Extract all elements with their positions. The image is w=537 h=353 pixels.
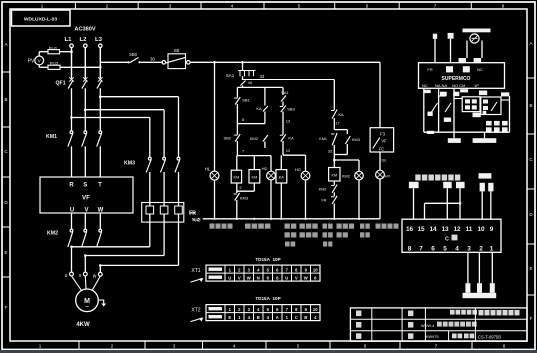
svg-text:6: 6 [366, 4, 369, 9]
wire PV loop [38, 52, 40, 56]
lamp HR [333, 157, 335, 159]
thermal relay FR [142, 203, 200, 223]
svg-text:17: 17 [335, 121, 340, 126]
connector plug 3 [456, 182, 465, 188]
terminal square above controller [433, 34, 437, 39]
svg-text:2: 2 [479, 246, 483, 253]
contact KM3 interlock NC [234, 193, 237, 195]
svg-text:8: 8 [503, 344, 506, 349]
svg-text:FR: FR [427, 67, 432, 72]
svg-text:1: 1 [490, 246, 494, 253]
svg-text:W: W [98, 208, 104, 214]
svg-text:B: B [304, 315, 307, 320]
svg-text:TD15A 10P: TD15A 10P [255, 296, 280, 301]
svg-text:U: U [285, 276, 288, 281]
svg-text:R: R [69, 183, 74, 189]
svg-text:AC380V: AC380V [74, 27, 95, 33]
svg-text:TD15A 10P: TD15A 10P [255, 257, 280, 262]
svg-text:1P: 1P [474, 83, 479, 88]
svg-text:10: 10 [313, 307, 318, 312]
svg-text:2: 2 [111, 344, 114, 349]
svg-text:HG: HG [295, 167, 301, 172]
cluster pad 2 [453, 92, 459, 96]
cluster pad under box [424, 90, 431, 93]
svg-text:5: 5 [297, 344, 300, 349]
wire tap L2 to KM3 pole2 [84, 108, 87, 111]
contact KA seal [264, 87, 266, 105]
svg-text:B: B [257, 315, 260, 320]
svg-text:KM1: KM1 [46, 134, 57, 140]
svg-text:NC: NC [477, 67, 483, 72]
cluster link wires [454, 98, 462, 100]
svg-text:N Ø: N Ø [193, 218, 201, 223]
svg-text:1: 1 [39, 344, 42, 349]
wire KM3 column [333, 80, 335, 111]
wire control rail bottom [203, 218, 380, 220]
svg-text:F: F [530, 316, 533, 321]
pushbutton SB2 [236, 124, 238, 135]
wire VF fault branch [379, 62, 381, 127]
svg-text:HD: HD [262, 166, 268, 171]
function label gongpin/bianpin/qiehuan [285, 224, 290, 229]
contact below SA1 [242, 76, 244, 80]
breaker QF1 [56, 77, 103, 131]
right zone dividers and letters [527, 41, 535, 321]
svg-text:10: 10 [313, 268, 318, 273]
alarm bell HA [463, 29, 491, 33]
svg-text:FU1: FU1 [49, 46, 58, 51]
wire ladder-L left vertical [236, 87, 238, 97]
svg-text:XT1: XT1 [191, 268, 200, 274]
svg-text:W: W [247, 276, 251, 281]
wire C3 down [467, 252, 469, 283]
cluster pad 8 [483, 111, 487, 115]
svg-text:KA: KA [256, 106, 262, 111]
svg-text:KM3: KM3 [352, 138, 360, 142]
svg-text:VF: VF [381, 139, 387, 144]
connector plug 1 [409, 182, 419, 188]
title block row3 labels [356, 333, 361, 339]
contact KM1 interlock NC [331, 133, 334, 135]
wire L2 vertical [84, 48, 86, 79]
title block [350, 308, 527, 341]
contact FR NC [333, 192, 335, 196]
wire lamp HR branch [333, 159, 336, 162]
wire Hx3 [283, 154, 306, 156]
contactor KM2 [47, 229, 102, 247]
cluster pad 4 [444, 118, 451, 122]
connector bar bottom [463, 293, 497, 298]
coil KM1 [236, 156, 238, 171]
plug pins bottom [465, 283, 470, 293]
switch SB in box [162, 61, 166, 65]
svg-text:9: 9 [490, 226, 494, 233]
wire motor leads [72, 276, 101, 291]
svg-text:~: ~ [85, 304, 89, 311]
controller unit SUPERMCO [419, 63, 505, 89]
svg-text:SA1: SA1 [226, 73, 235, 78]
wire FR pole3 to motor [178, 222, 180, 265]
svg-text:KM3: KM3 [124, 161, 135, 167]
lamp HR line-run indicator [334, 158, 359, 160]
svg-text:SB: SB [174, 48, 180, 53]
relay box B [481, 97, 501, 115]
relay contact K1 [432, 103, 438, 112]
svg-text:PV: PV [28, 59, 35, 65]
svg-text:KM2: KM2 [250, 136, 259, 141]
svg-text:14: 14 [429, 226, 437, 233]
svg-text:FC: FC [379, 147, 385, 152]
svg-text:KM2: KM2 [47, 231, 58, 237]
title block row1 labels [356, 311, 361, 317]
svg-text:u: u [65, 273, 68, 279]
wire VF outputs [71, 213, 73, 230]
wire H1 selector row [243, 79, 335, 81]
svg-text:KA: KA [338, 112, 344, 117]
svg-text:8: 8 [502, 4, 505, 9]
wire plug1 to C16 [413, 188, 415, 219]
terminal grid [486, 121, 508, 132]
svg-text:S: S [83, 183, 87, 189]
svg-text:E: E [529, 266, 532, 271]
svg-text:A: A [276, 315, 279, 320]
function label guzhang zhishi [376, 224, 381, 229]
title block project name line1 [450, 310, 455, 315]
lamp HR [355, 171, 364, 180]
svg-text:KM1: KM1 [319, 137, 327, 141]
wire L3 vertical [99, 48, 101, 79]
cluster pad 6 [501, 92, 509, 96]
svg-text:10: 10 [477, 226, 485, 233]
svg-text:4: 4 [455, 246, 459, 253]
svg-text:SUPERMCO: SUPERMCO [442, 76, 471, 82]
svg-text:L3: L3 [95, 37, 103, 43]
motor M 4KW [76, 289, 99, 312]
svg-text:15: 15 [417, 226, 425, 233]
wire loop bottom [237, 123, 265, 125]
relay box A [462, 97, 480, 112]
contactor KM3 (bypass) [124, 157, 180, 202]
svg-text:12: 12 [286, 148, 291, 153]
svg-text:B: B [4, 97, 7, 102]
svg-text:B: B [529, 103, 532, 108]
bottom zone dividers and numbers [39, 341, 506, 350]
svg-text:6: 6 [364, 344, 367, 349]
svg-text:8: 8 [408, 246, 412, 253]
svg-text:40: 40 [248, 80, 253, 85]
cluster pad 3 [428, 112, 433, 116]
svg-text:W: W [304, 276, 308, 281]
wire to controller [434, 39, 436, 63]
contact KM3 seal [345, 136, 350, 144]
svg-text:KM2: KM2 [319, 188, 327, 192]
terminal pads on controller top [459, 58, 467, 63]
svg-text:1: 1 [41, 4, 44, 9]
cluster pad under box 2 [460, 89, 468, 92]
wire plug3 to C12 with tee [459, 188, 461, 219]
terminal board C [402, 219, 501, 252]
svg-text:WDW-4: WDW-4 [421, 324, 434, 328]
coil KA [280, 155, 282, 169]
svg-text:7: 7 [434, 4, 437, 9]
svg-text:3: 3 [169, 4, 172, 9]
top zone dividers and numbers [41, 2, 505, 9]
left zone dividers and letters [2, 42, 10, 310]
svg-text:NA NA: NA NA [435, 83, 447, 88]
svg-text:5: 5 [298, 4, 301, 9]
svg-text:V: V [295, 276, 298, 281]
svg-text:KM: KM [252, 175, 258, 179]
wire plug2 to C13 [446, 188, 448, 219]
svg-text:XT2: XT2 [191, 308, 200, 314]
svg-text:SA1: SA1 [281, 90, 289, 95]
svg-text:V: V [238, 276, 241, 281]
svg-text:T: T [98, 183, 102, 189]
document number box [12, 10, 71, 26]
terminal strip XT1 [191, 257, 321, 282]
contact KM2 below KM3 coil NC [333, 181, 335, 185]
svg-text:7: 7 [419, 246, 423, 253]
wire H2 ladder top [242, 86, 244, 88]
svg-text:QF1: QF1 [56, 81, 66, 87]
inverter VF [40, 177, 133, 213]
svg-text:VF: VF [82, 195, 90, 202]
svg-text:KM2: KM2 [342, 175, 350, 179]
cluster pad 5 [479, 91, 487, 96]
wire ladder-R vertical [282, 87, 284, 95]
svg-text:SB1: SB1 [242, 98, 250, 103]
contactor KM1 [46, 131, 102, 177]
coil KM2 [253, 156, 255, 170]
cluster stub 2 [484, 132, 486, 138]
ground symbol [98, 300, 103, 304]
svg-text:13: 13 [441, 226, 449, 233]
wire tap L3 to KM3 pole3 [99, 95, 102, 98]
svg-text:FR: FR [321, 199, 326, 203]
svg-text:6: 6 [431, 246, 435, 253]
wire FR pole1 to motor [149, 222, 151, 247]
svg-text:16: 16 [406, 226, 414, 233]
svg-text:3: 3 [173, 344, 176, 349]
title block row2 labels [356, 322, 361, 328]
function label gongpin yunxing [337, 224, 342, 229]
svg-text:V: V [84, 208, 88, 214]
svg-text:L2: L2 [79, 37, 87, 43]
wire pin1 to C10 [481, 191, 483, 219]
wire C1 down [491, 252, 493, 283]
function label bianpin yunxing [245, 224, 251, 229]
connector bar top right [479, 173, 492, 178]
wire KM2 to motor terminals [71, 247, 73, 272]
function label gongpin [323, 224, 328, 229]
wire control rail top [100, 61, 128, 63]
svg-text:KA: KA [279, 175, 285, 179]
svg-text:E: E [4, 250, 7, 255]
bottom gray strip [0, 350, 537, 353]
wire KM1 KM2 coil bottoms merge [236, 183, 238, 193]
title block drawing name [479, 310, 484, 315]
relay cluster wiring [424, 88, 510, 132]
inverter fault contact box F3 VF FC [370, 128, 394, 152]
function label qidong [360, 224, 364, 229]
svg-text:KM: KM [331, 174, 337, 178]
wire C2 down [478, 252, 480, 283]
wire Hx2 coil feed [237, 155, 271, 157]
cluster pad 1 [440, 92, 447, 96]
svg-text:13: 13 [286, 119, 291, 124]
cluster pad on bottom line [427, 131, 434, 134]
svg-text:5: 5 [443, 246, 447, 253]
svg-text:4: 4 [233, 344, 236, 349]
svg-text:32: 32 [328, 149, 333, 154]
selector switch SA1 [226, 71, 265, 80]
contact SB3 [282, 102, 284, 107]
function label bianpin qidong [300, 224, 305, 229]
svg-text:F3: F3 [380, 131, 386, 136]
svg-text:C: C [295, 315, 298, 320]
svg-text:C: C [445, 237, 449, 243]
svg-text:NC: NC [422, 83, 428, 88]
function label dianyuan zhishi [210, 224, 215, 229]
connector bar 1 [448, 138, 461, 143]
wire FR pole2 to motor [163, 222, 165, 255]
svg-text:L1: L1 [64, 37, 72, 43]
svg-text:GL: GL [381, 158, 387, 163]
label high/low signal output [415, 175, 420, 181]
svg-text:N: N [257, 276, 260, 281]
lamp HY fault indicator [379, 152, 381, 170]
plug pin 1 [480, 183, 485, 192]
wire to controller 2 [450, 39, 452, 63]
svg-text:7: 7 [435, 344, 438, 349]
svg-text:E: E [228, 315, 231, 320]
junction dots bottom rail [213, 218, 360, 220]
wire SA1 drop [241, 61, 244, 64]
svg-text:HL: HL [205, 167, 211, 172]
contact KM2 interlock [263, 135, 268, 142]
terminal square 2 above controller [448, 33, 454, 39]
cluster stub 1 [453, 132, 455, 138]
svg-text:CS-T-0975B: CS-T-0975B [478, 334, 501, 339]
svg-text:KM3: KM3 [240, 196, 249, 201]
svg-text:33: 33 [260, 74, 265, 79]
connector plug 2 [443, 182, 452, 188]
svg-text:3: 3 [467, 246, 471, 253]
plug pin 2 [488, 183, 493, 192]
contact time delay [331, 110, 334, 112]
svg-text:WDLUXD-L-03: WDLUXD-L-03 [24, 17, 57, 23]
cluster pad 7 [473, 113, 481, 118]
svg-text:11: 11 [466, 226, 473, 233]
wire KM3 seal loop [334, 129, 347, 131]
wire L1 vertical [71, 48, 73, 79]
relay contact K2 [445, 103, 451, 112]
terminal strip XT2 [191, 296, 321, 321]
svg-text:U: U [228, 276, 231, 281]
wire bell legs [466, 41, 468, 59]
svg-text:4KW: 4KW [76, 322, 90, 328]
connector bar 2 [473, 138, 497, 143]
svg-text:HY: HY [385, 174, 391, 179]
wire HL branch [213, 61, 216, 64]
svg-text:12: 12 [453, 226, 461, 233]
svg-text:NO CM: NO CM [452, 83, 465, 88]
svg-text:KW975: KW975 [426, 335, 438, 339]
coil KM3 [329, 168, 340, 182]
svg-text:U: U [70, 208, 74, 214]
contact SB4 KA [280, 134, 283, 136]
svg-text:F: F [5, 305, 8, 310]
pushbutton SB1 [234, 97, 237, 99]
svg-text:KM: KM [234, 176, 240, 180]
wire pin2 to C9 [490, 191, 492, 219]
svg-text:SB0: SB0 [129, 52, 138, 57]
svg-text:SB2: SB2 [223, 136, 231, 141]
svg-text:30: 30 [150, 57, 155, 62]
svg-text:2: 2 [106, 4, 109, 9]
svg-text:FR: FR [190, 211, 197, 216]
svg-text:w: w [93, 274, 97, 280]
wire tap L1 to KM3 pole1 [70, 116, 73, 119]
svg-text:SB3: SB3 [287, 107, 295, 112]
svg-text:KA: KA [288, 136, 294, 141]
svg-text:4: 4 [231, 4, 234, 9]
